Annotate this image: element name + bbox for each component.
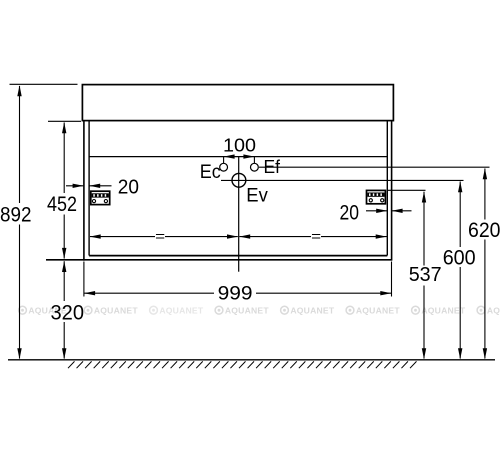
dim 100 arrows — [224, 154, 255, 163]
dim 320 vertical line — [62, 261, 66, 359]
Ev horizontal axis line / 600 extension — [221, 179, 464, 181]
countertop — [82, 85, 393, 121]
left wall hanger bracket — [91, 191, 110, 204]
svg-text:20: 20 — [340, 202, 360, 225]
cabinet right side panel outer line — [391, 121, 393, 261]
svg-text:AQUANET: AQUANET — [290, 306, 334, 316]
dim 452 extension line — [48, 120, 81, 122]
floor line — [8, 359, 495, 361]
floor hatching — [68, 361, 417, 368]
cabinet left side panel inner line — [88, 121, 90, 256]
left 20 dimension — [66, 184, 112, 188]
cabinet right side panel inner line — [386, 121, 388, 256]
svg-text:AQUANET: AQUANET — [94, 306, 138, 316]
watermark row — [19, 306, 500, 316]
bracket top level / 537 extension — [388, 189, 426, 191]
svg-text:AQUANET: AQUANET — [356, 306, 400, 316]
svg-text:AQUANET: AQUANET — [225, 306, 269, 316]
svg-text:892: 892 — [0, 202, 32, 226]
dim 999 left extension — [83, 262, 85, 297]
cabinet interior top rail line — [89, 156, 387, 158]
svg-text:AQUANET: AQUANET — [487, 306, 500, 316]
svg-text:Ev: Ev — [246, 184, 268, 206]
dim 999 line — [84, 291, 391, 295]
cabinet bottom outer line with left extension — [46, 259, 392, 261]
svg-text:Ec: Ec — [200, 162, 221, 183]
cabinet left side panel outer line — [83, 121, 85, 261]
svg-text:AQUANET: AQUANET — [421, 306, 465, 316]
svg-text:AQUANET: AQUANET — [159, 306, 203, 316]
cabinet bottom inner line — [89, 255, 387, 257]
drain Ev circle — [232, 173, 246, 187]
svg-text:100: 100 — [223, 135, 256, 155]
dim 999 right extension — [391, 262, 393, 297]
hole Ec circle — [220, 163, 228, 171]
vertical centerline — [238, 157, 240, 272]
dim 600 vertical line — [458, 181, 462, 359]
svg-text:452: 452 — [47, 192, 77, 216]
svg-text:20: 20 — [118, 176, 139, 199]
svg-text:620: 620 — [468, 219, 500, 242]
dim 892 top extension line — [10, 83, 78, 85]
right wall hanger bracket — [367, 190, 386, 203]
dim 620 vertical line — [483, 168, 487, 359]
right 20 dimension — [366, 209, 412, 213]
svg-text:600: 600 — [443, 246, 476, 269]
svg-text:=: = — [155, 228, 165, 244]
svg-text:537: 537 — [409, 264, 442, 286]
dim 537 vertical line — [422, 192, 426, 360]
dim 452 vertical line — [62, 122, 66, 259]
svg-text:999: 999 — [218, 283, 253, 304]
hole Ef circle — [251, 163, 259, 171]
equal dim line left segment — [90, 228, 238, 244]
svg-text:=: = — [311, 228, 321, 244]
dim 892 vertical line — [17, 85, 21, 359]
svg-text:320: 320 — [51, 302, 85, 325]
Ec-Ef level line / 620 extension — [259, 166, 490, 168]
equal dim line right segment — [239, 228, 387, 244]
